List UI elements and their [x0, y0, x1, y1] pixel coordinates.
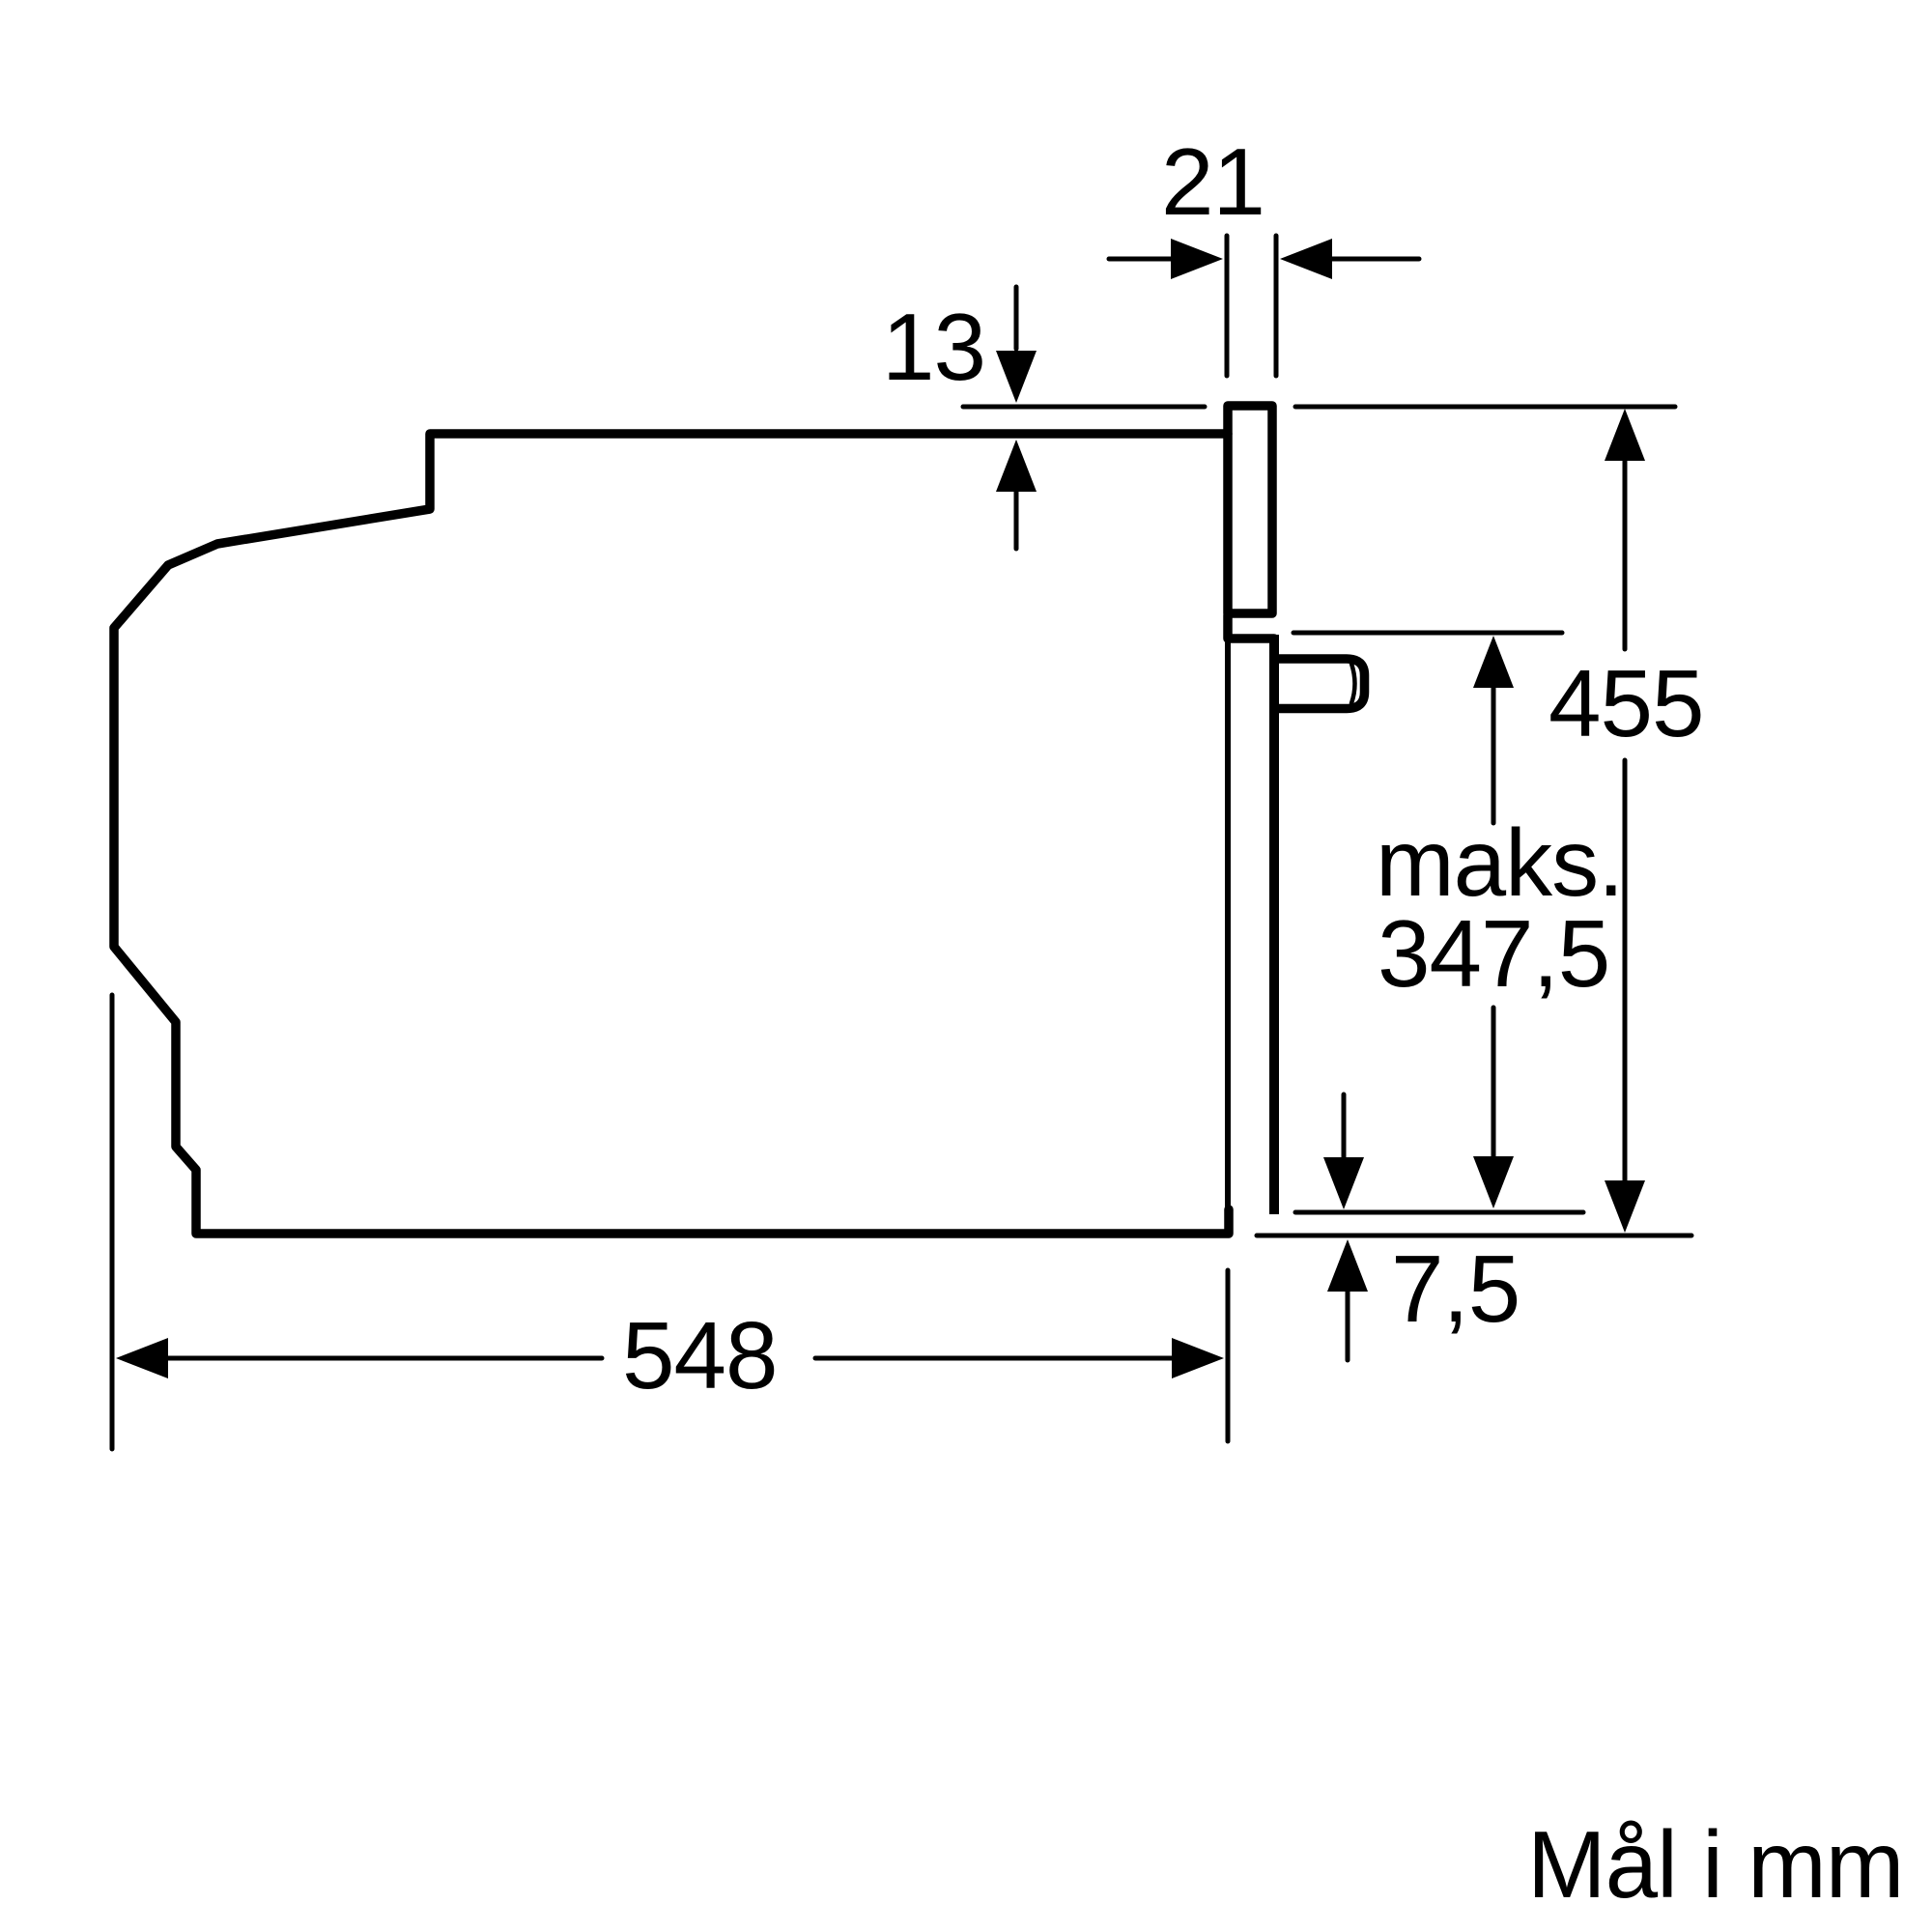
- svg-text:Mål i mm: Mål i mm: [1527, 1811, 1903, 1918]
- svg-text:7,5: 7,5: [1391, 1236, 1520, 1342]
- svg-text:13: 13: [882, 294, 985, 400]
- svg-text:21: 21: [1161, 128, 1264, 235]
- svg-text:548: 548: [622, 1302, 778, 1408]
- svg-text:455: 455: [1548, 650, 1704, 756]
- svg-text:347,5: 347,5: [1378, 900, 1609, 1007]
